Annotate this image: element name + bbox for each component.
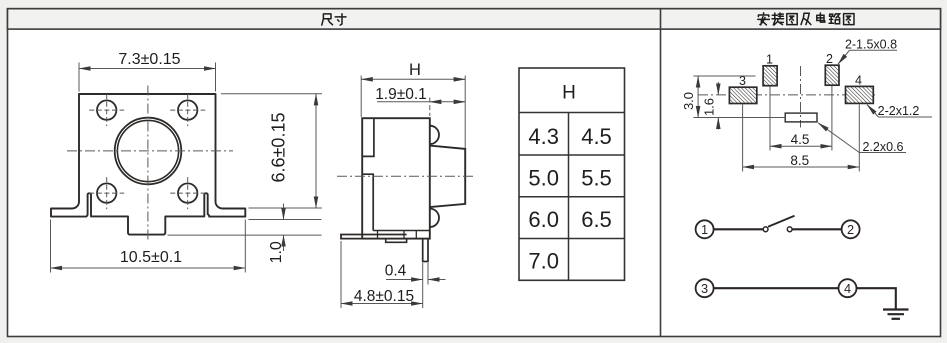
dimension 7.3±0.15 dimension line	[79, 68, 216, 70]
circuit node 4 terminal circle	[839, 279, 857, 297]
side view bottom lead ticks	[378, 231, 417, 239]
svg-text:4: 4	[844, 281, 851, 296]
dimension H dimension line	[361, 78, 465, 80]
circuit node 2 terminal circle	[842, 220, 860, 238]
front view bottom-right terminal hole	[178, 183, 197, 202]
panel divider	[660, 9, 662, 337]
solder pad 2 (hatched)	[825, 65, 839, 85]
table row 4.3 / 4.5	[528, 124, 611, 149]
svg-text:4.5: 4.5	[581, 124, 612, 149]
switch contact left	[763, 227, 768, 232]
wire from node 1 to switch contact	[713, 228, 763, 230]
side view inner mid-left step	[362, 174, 373, 230]
svg-text:3.0: 3.0	[681, 92, 696, 110]
pcb layout vertical centerline	[800, 66, 802, 128]
svg-text:7.0: 7.0	[528, 249, 559, 274]
H-value table row lines	[519, 113, 625, 239]
svg-text:8.5: 8.5	[790, 153, 809, 168]
side view bottom mounting plate	[341, 235, 407, 239]
dimension 3.0 extension lines	[693, 76, 785, 118]
dimension H extension lines	[361, 76, 465, 149]
crosshair centerlines of bottom-right hole	[170, 177, 205, 209]
dimension 6.6±0.15 extension lines	[221, 94, 322, 208]
side view bottom dome bump	[430, 209, 439, 227]
svg-text:4.5: 4.5	[791, 132, 810, 147]
switch lever arm	[768, 216, 795, 227]
svg-text:1: 1	[701, 222, 708, 237]
svg-text:6.6±0.15: 6.6±0.15	[269, 113, 289, 183]
pcb layout horizontal centerline	[698, 94, 876, 96]
svg-text:4.3: 4.3	[528, 124, 559, 149]
front view body outline with mounting wings and bottom tab	[51, 94, 245, 235]
svg-text:4: 4	[855, 74, 862, 88]
svg-text:5.5: 5.5	[581, 166, 612, 191]
front view top-left terminal hole	[97, 100, 116, 119]
svg-text:10.5±0.1: 10.5±0.1	[120, 249, 182, 266]
dimension 10.5±0.1 dimension line	[51, 267, 246, 269]
switch contact right	[787, 227, 792, 232]
header band	[8, 9, 941, 29]
side view horizontal centerline	[337, 175, 476, 177]
crosshair centerlines of top-left hole	[89, 94, 124, 126]
table row 6.0 / 6.5	[528, 207, 611, 232]
svg-text:2.2x0.6: 2.2x0.6	[862, 140, 903, 154]
solder pad 1 (hatched)	[763, 66, 777, 86]
wire from switch contact to node 2	[792, 228, 842, 230]
svg-text:4.8±0.15: 4.8±0.15	[354, 288, 414, 305]
dimension 1.0 extension lines	[168, 220, 322, 236]
header title right: installation &amp; circuit diagram	[758, 13, 854, 25]
front view bottom-left terminal hole	[97, 183, 116, 202]
solder pad 4 (hatched)	[846, 86, 874, 103]
svg-text:1.9±0.1: 1.9±0.1	[375, 86, 427, 103]
side view bottom lead pin	[423, 239, 428, 262]
svg-text:0.4: 0.4	[385, 262, 407, 279]
side view inner bottom line	[373, 230, 430, 232]
dimension 7.3±0.15 extension lines	[79, 63, 216, 92]
svg-text:1: 1	[766, 53, 773, 67]
front view horizontal centerline	[67, 150, 233, 152]
side view top dome bump	[430, 126, 439, 144]
dimension 1.0 outside arrows	[283, 204, 285, 252]
svg-text:7.3±0.15: 7.3±0.15	[118, 51, 180, 68]
leader and label 2-2x1.2 for pads 3,4	[867, 104, 932, 118]
crosshair centerlines of bottom-left hole	[89, 177, 124, 209]
circuit node 3 terminal circle	[696, 279, 714, 297]
svg-text:H: H	[409, 61, 421, 79]
svg-text:2: 2	[826, 52, 833, 66]
H-value table outer border	[519, 68, 625, 280]
dimension 8.5 extension lines	[743, 105, 860, 172]
leader and label 2-1.5x0.8 for pads 1,2	[838, 38, 897, 65]
table row 7.0 / blank	[528, 249, 559, 274]
dimension 4.8±0.15 dimension line	[341, 303, 423, 305]
wire from node 4 to ground	[856, 288, 896, 309]
front view central boss outer circle	[115, 118, 182, 185]
svg-text:H: H	[562, 82, 576, 103]
side view body rectangle	[362, 118, 430, 238]
dimension 3.0 dimension line	[697, 76, 699, 118]
wire from node 3 to node 4	[713, 287, 839, 289]
dimension 8.5 dimension line	[743, 166, 860, 168]
circuit node 1 terminal circle	[696, 220, 714, 238]
H-value table column divider	[568, 113, 570, 281]
header title left: chi-cun (dimensions)	[322, 14, 346, 25]
solder pad 3 (hatched)	[729, 87, 756, 103]
dimension 1.9±0.1 dimension line with tail	[377, 101, 465, 103]
dimension 4.5 extension lines	[770, 86, 832, 151]
dimension 4.8±0.15 extension line	[340, 241, 342, 308]
front view central boss inner circle	[117, 120, 178, 181]
svg-text:2: 2	[847, 222, 854, 237]
front view top-right terminal hole	[178, 100, 197, 119]
svg-text:2-1.5x0.8: 2-1.5x0.8	[845, 38, 897, 52]
svg-text:6.0: 6.0	[528, 207, 559, 232]
crosshair centerlines of top-right hole	[170, 94, 205, 126]
dimension 0.4 extension lines	[423, 263, 428, 308]
svg-text:3: 3	[701, 281, 708, 296]
side view bottom plate step	[386, 239, 407, 243]
dimension 1.9±0.1 dashed extension line	[429, 98, 431, 117]
ground symbol	[883, 310, 909, 319]
leader and label 2.2x0.6 for center slot	[818, 123, 906, 154]
svg-text:2-2x1.2: 2-2x1.2	[878, 104, 920, 118]
front view vertical centerline	[147, 86, 149, 243]
dimension 4.5 dimension line	[770, 145, 832, 147]
dimension 0.4 arrows	[386, 279, 446, 281]
svg-text:6.5: 6.5	[581, 207, 612, 232]
center slot rectangle 2.2x0.6	[785, 113, 817, 122]
side view inner top-left step	[362, 118, 374, 156]
dimension 10.5±0.1 extension lines	[51, 220, 246, 273]
dimension 1.6 outside arrows	[717, 82, 719, 130]
svg-text:1.6: 1.6	[702, 98, 717, 116]
table row 5.0 / 5.5	[528, 166, 611, 191]
svg-text:1.0: 1.0	[268, 241, 285, 263]
dimension 6.6±0.15 dimension line	[315, 94, 317, 208]
side view actuator stem	[430, 146, 465, 208]
svg-text:5.0: 5.0	[528, 166, 559, 191]
